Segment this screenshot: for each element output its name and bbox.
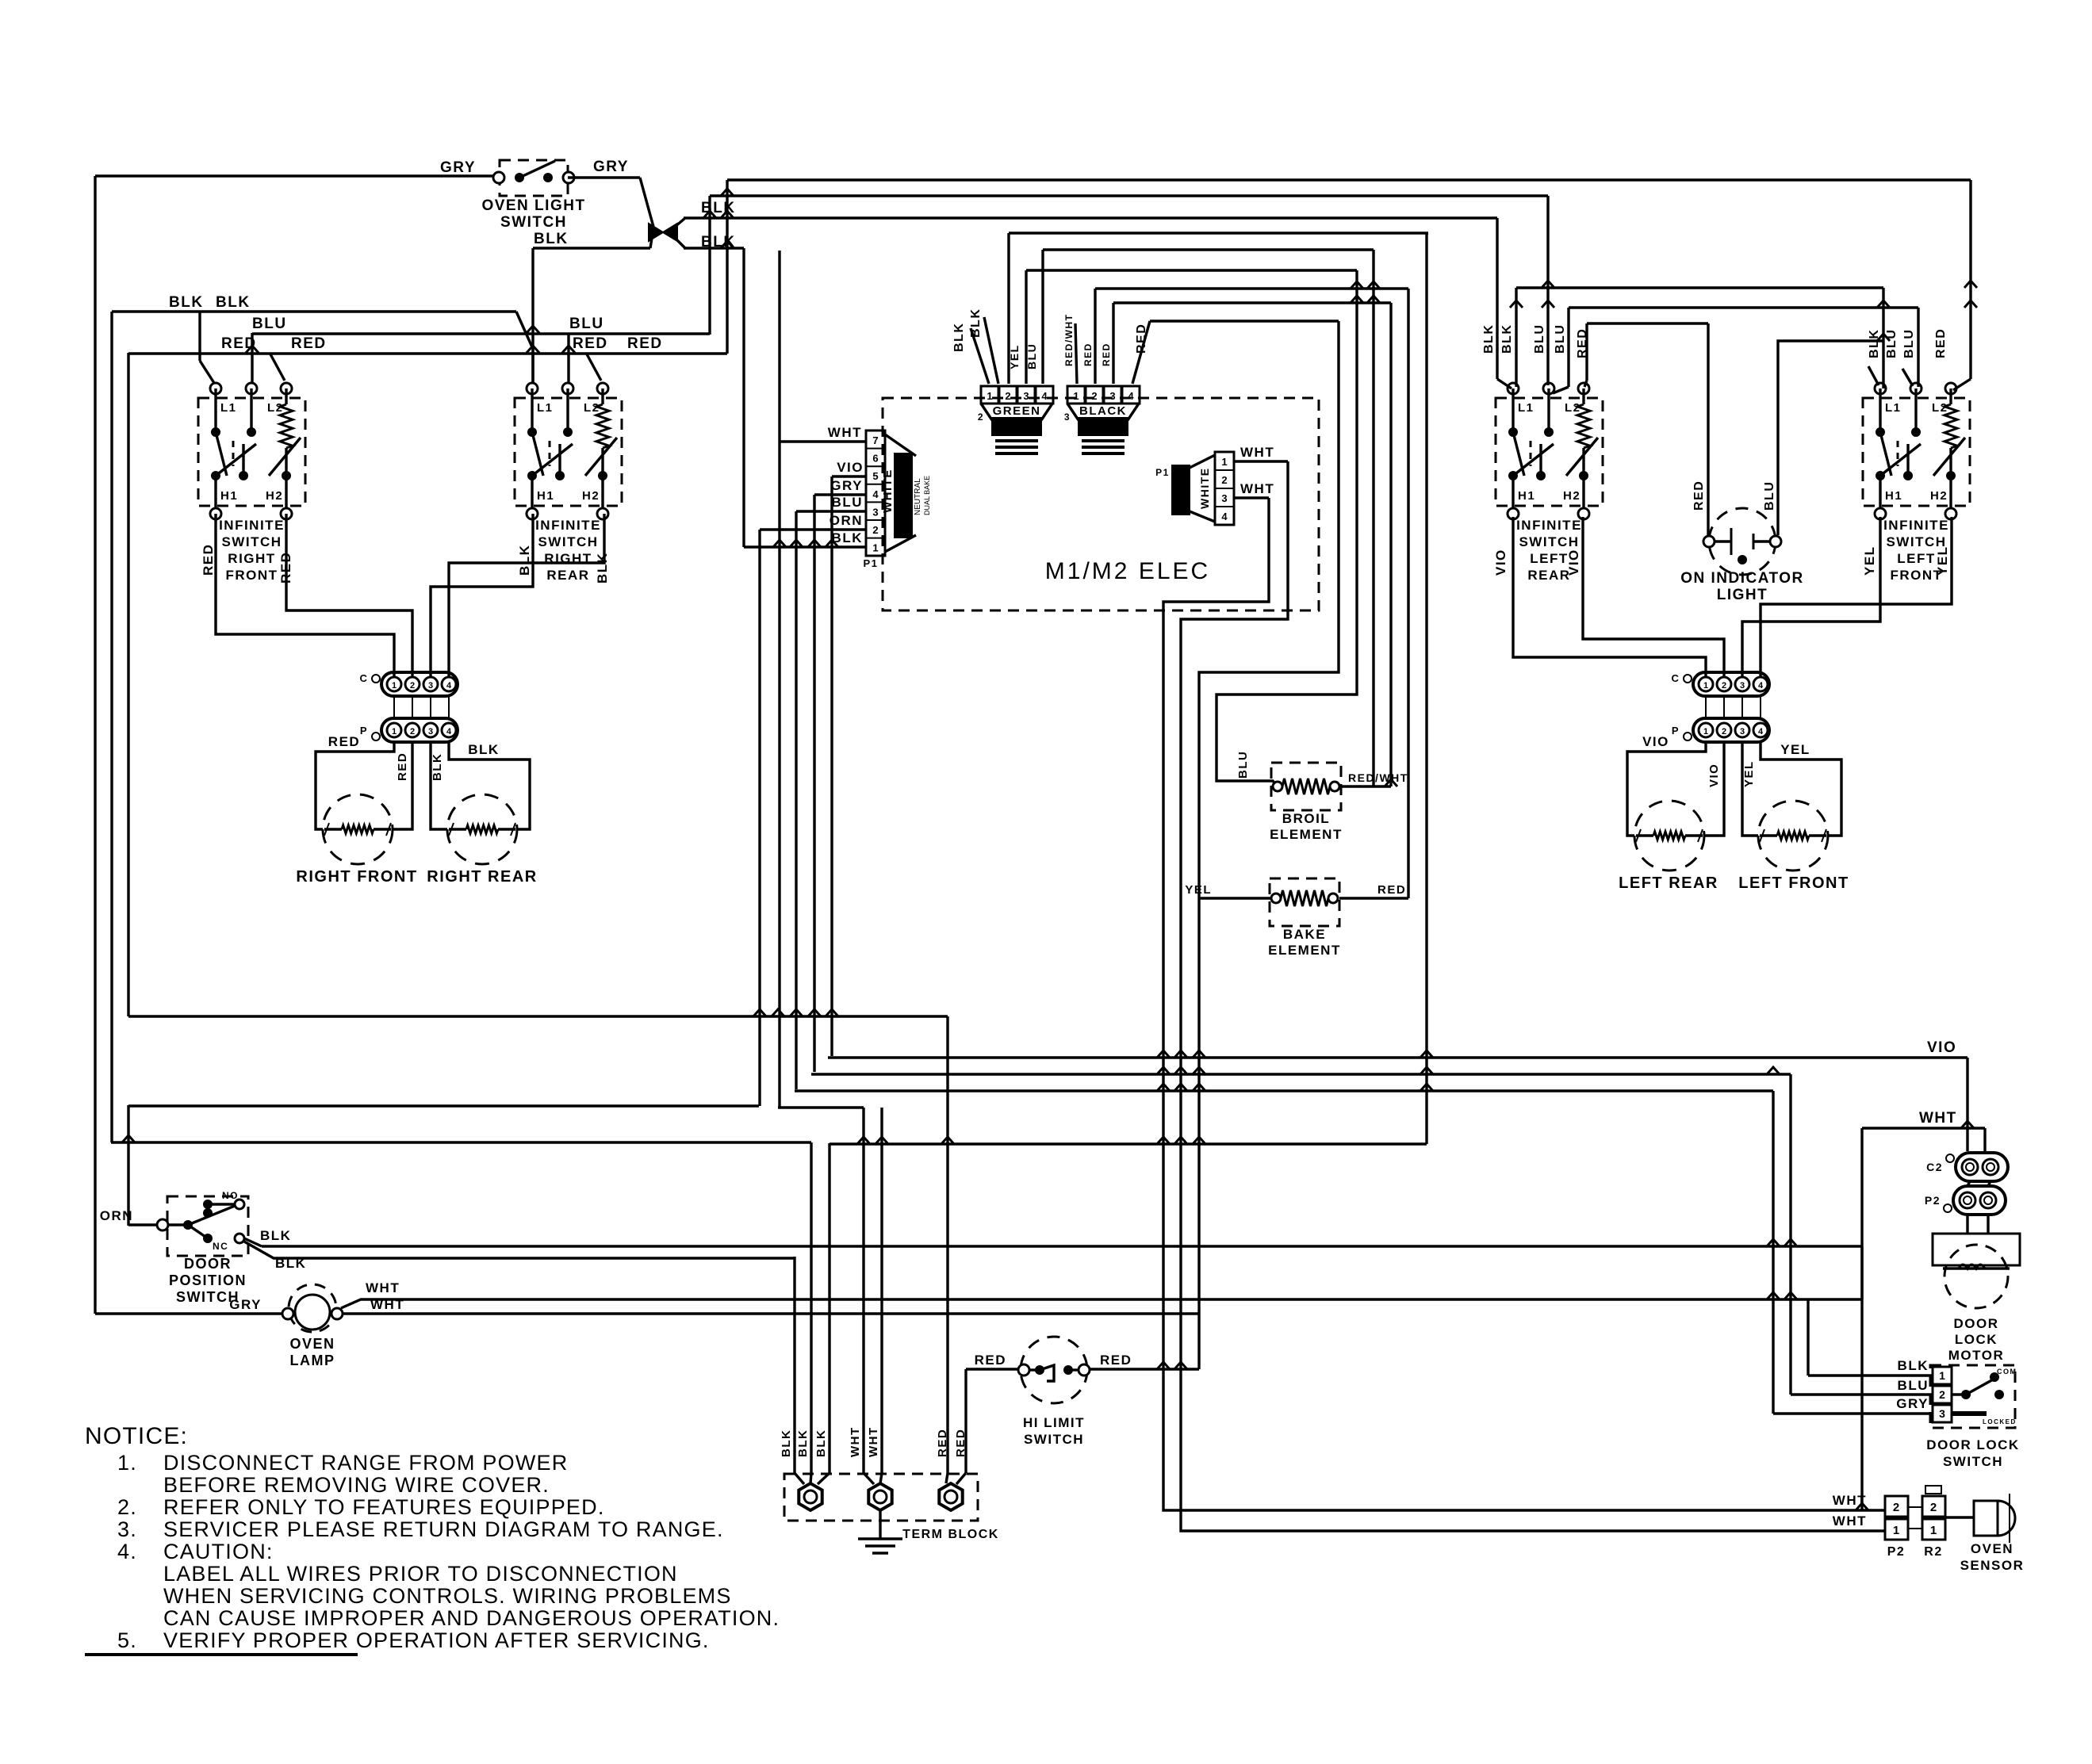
svg-text:2: 2: [1939, 1388, 1945, 1401]
svg-text:MOTOR: MOTOR: [1948, 1348, 2004, 1363]
svg-text:5: 5: [872, 470, 878, 482]
svg-text:FRONT: FRONT: [225, 568, 278, 583]
svg-text:2: 2: [1722, 727, 1726, 737]
svg-text:SENSOR: SENSOR: [1960, 1558, 2025, 1573]
svg-text:OVEN LIGHT: OVEN LIGHT: [481, 197, 585, 214]
svg-text:SWITCH: SWITCH: [1519, 534, 1579, 549]
svg-text:YEL: YEL: [1742, 760, 1756, 787]
svg-text:GRY: GRY: [593, 159, 629, 175]
svg-text:ELEMENT: ELEMENT: [1270, 827, 1343, 842]
svg-text:RED: RED: [1377, 883, 1406, 897]
svg-text:1: 1: [872, 542, 878, 554]
svg-text:BLK: BLK: [1898, 1358, 1929, 1373]
svg-text:BLK: BLK: [1482, 324, 1496, 354]
svg-text:INFINITE: INFINITE: [219, 518, 285, 533]
svg-text:M1/M2 ELEC: M1/M2 ELEC: [1045, 558, 1210, 584]
svg-text:OVEN: OVEN: [1971, 1541, 2013, 1556]
svg-text:BLK: BLK: [780, 1429, 793, 1457]
svg-text:LEFT: LEFT: [1897, 551, 1936, 566]
svg-text:2: 2: [978, 411, 984, 423]
svg-text:BLU: BLU: [1236, 751, 1250, 779]
svg-text:YEL: YEL: [1185, 883, 1212, 897]
svg-text:4: 4: [446, 727, 452, 737]
svg-text:P1: P1: [1155, 467, 1170, 478]
svg-text:GRY: GRY: [830, 478, 863, 493]
svg-text:DOOR: DOOR: [184, 1256, 232, 1272]
svg-text:RED: RED: [328, 734, 360, 749]
svg-text:LOCKED: LOCKED: [1983, 1418, 2017, 1425]
svg-text:P1: P1: [864, 557, 879, 569]
svg-text:YEL: YEL: [1780, 742, 1810, 757]
svg-text:LEFT FRONT: LEFT FRONT: [1738, 874, 1849, 892]
svg-text:BLU: BLU: [1902, 329, 1916, 358]
svg-text:SWITCH: SWITCH: [221, 534, 282, 549]
svg-text:RED: RED: [975, 1353, 1006, 1368]
svg-text:DOOR LOCK: DOOR LOCK: [1926, 1437, 2019, 1452]
svg-text:RED: RED: [291, 335, 327, 352]
svg-text:2: 2: [872, 524, 878, 536]
svg-text:BLK: BLK: [275, 1256, 306, 1271]
svg-text:SWITCH: SWITCH: [1024, 1432, 1084, 1447]
svg-text:LEFT REAR: LEFT REAR: [1619, 874, 1718, 892]
svg-text:VIO: VIO: [1566, 549, 1581, 576]
svg-text:RED: RED: [1101, 342, 1112, 366]
svg-text:RED: RED: [627, 335, 663, 352]
svg-text:3: 3: [428, 681, 433, 691]
svg-text:SWITCH: SWITCH: [538, 534, 598, 549]
svg-text:BLK: BLK: [969, 308, 983, 338]
svg-text:BLK: BLK: [952, 323, 966, 352]
svg-text:BLK: BLK: [534, 231, 569, 247]
svg-text:WHT: WHT: [1240, 445, 1274, 460]
svg-text:NEUTRAL: NEUTRAL: [914, 478, 922, 515]
svg-text:BLU: BLU: [569, 316, 604, 332]
svg-text:R2: R2: [1924, 1545, 1942, 1559]
svg-text:VIO: VIO: [1642, 734, 1669, 749]
svg-text:1: 1: [987, 390, 992, 402]
svg-text:L1: L1: [537, 401, 554, 415]
svg-text:RIGHT FRONT: RIGHT FRONT: [296, 868, 417, 886]
svg-text:2: 2: [1722, 681, 1726, 691]
svg-text:COM: COM: [1997, 1368, 2017, 1376]
svg-text:INFINITE: INFINITE: [1516, 518, 1582, 533]
svg-text:H2: H2: [266, 489, 283, 503]
svg-text:WHITE: WHITE: [1198, 467, 1211, 509]
svg-text:1: 1: [1703, 681, 1708, 691]
svg-text:RED: RED: [936, 1429, 949, 1457]
svg-text:BLK: BLK: [216, 294, 251, 311]
svg-text:VIO: VIO: [1707, 763, 1721, 787]
svg-text:WHT: WHT: [1919, 1110, 1957, 1127]
svg-text:BLU: BLU: [1898, 1378, 1929, 1393]
svg-text:1: 1: [392, 727, 397, 737]
svg-text:BEFORE REMOVING WIRE COVER.: BEFORE REMOVING WIRE COVER.: [163, 1473, 550, 1497]
svg-text:RED: RED: [1100, 1353, 1132, 1368]
svg-text:4: 4: [1128, 390, 1134, 402]
svg-text:H2: H2: [1563, 489, 1580, 503]
svg-text:P2: P2: [1925, 1194, 1941, 1207]
svg-text:4: 4: [1758, 681, 1764, 691]
svg-text:3: 3: [1740, 727, 1745, 737]
svg-text:ON INDICATOR: ON INDICATOR: [1680, 570, 1804, 587]
svg-text:SWITCH: SWITCH: [1943, 1454, 2003, 1469]
svg-text:LAMP: LAMP: [290, 1353, 335, 1368]
svg-text:VIO: VIO: [1927, 1039, 1956, 1056]
svg-text:C: C: [360, 672, 369, 684]
svg-text:BLK: BLK: [796, 1429, 810, 1457]
svg-text:RED: RED: [201, 544, 216, 576]
svg-text:GRY: GRY: [1896, 1396, 1929, 1411]
svg-text:DOOR: DOOR: [1954, 1316, 1999, 1331]
svg-text:HI LIMIT: HI LIMIT: [1023, 1415, 1085, 1430]
svg-text:WHITE: WHITE: [881, 469, 895, 513]
svg-text:WHT: WHT: [1833, 1493, 1867, 1508]
svg-text:H1: H1: [537, 489, 554, 503]
svg-text:BLK: BLK: [595, 553, 610, 584]
svg-text:4: 4: [1758, 727, 1764, 737]
svg-text:3: 3: [428, 727, 433, 737]
svg-text:BLU: BLU: [832, 495, 863, 510]
svg-text:4.: 4.: [117, 1540, 137, 1563]
svg-text:3: 3: [1064, 411, 1071, 423]
svg-text:BLK: BLK: [431, 753, 444, 781]
svg-text:LIGHT: LIGHT: [1717, 587, 1768, 603]
svg-text:BLK: BLK: [517, 545, 532, 576]
svg-text:4: 4: [1041, 390, 1048, 402]
svg-text:3: 3: [1221, 492, 1227, 504]
svg-text:WHEN SERVICING CONTROLS. WIRIN: WHEN SERVICING CONTROLS. WIRING PROBLEMS: [163, 1584, 732, 1608]
svg-text:LABEL ALL WIRES PRIOR TO DISCO: LABEL ALL WIRES PRIOR TO DISCONNECTION: [163, 1562, 678, 1586]
svg-text:VIO: VIO: [1493, 549, 1508, 576]
svg-text:2: 2: [1893, 1501, 1899, 1514]
svg-text:H1: H1: [1885, 489, 1902, 503]
svg-text:BLK: BLK: [1500, 324, 1514, 354]
svg-text:4: 4: [872, 488, 879, 500]
svg-text:DUAL BAKE: DUAL BAKE: [923, 476, 931, 515]
svg-text:6: 6: [872, 453, 878, 465]
svg-text:INFINITE: INFINITE: [1883, 518, 1949, 533]
svg-text:RED: RED: [396, 752, 409, 781]
svg-text:WHT: WHT: [370, 1297, 404, 1312]
svg-text:2: 2: [1930, 1501, 1937, 1514]
svg-text:2: 2: [1091, 390, 1097, 402]
svg-text:GRY: GRY: [229, 1297, 262, 1312]
svg-text:BLU: BLU: [1554, 324, 1567, 354]
svg-text:L1: L1: [1885, 401, 1902, 415]
svg-text:ELEMENT: ELEMENT: [1268, 943, 1341, 958]
svg-text:BLU: BLU: [252, 316, 287, 332]
svg-text:RED: RED: [1576, 328, 1589, 358]
svg-text:3.: 3.: [117, 1517, 137, 1541]
svg-text:VIO: VIO: [837, 460, 864, 475]
svg-text:WHT: WHT: [867, 1426, 880, 1457]
svg-text:NC: NC: [213, 1241, 228, 1252]
svg-text:BLK: BLK: [814, 1429, 828, 1457]
svg-text:CAN CAUSE IMPROPER AND DANGERO: CAN CAUSE IMPROPER AND DANGEROUS OPERATI…: [163, 1606, 780, 1630]
svg-text:3: 3: [1740, 681, 1745, 691]
svg-text:C: C: [1672, 672, 1680, 684]
svg-text:ORN: ORN: [100, 1208, 133, 1223]
svg-text:2.: 2.: [117, 1495, 137, 1519]
svg-text:BAKE: BAKE: [1283, 927, 1326, 942]
svg-text:3: 3: [1109, 390, 1115, 402]
svg-text:3: 3: [872, 506, 878, 518]
svg-text:WHT: WHT: [1240, 481, 1274, 496]
svg-text:RED: RED: [1692, 480, 1706, 511]
svg-text:BLU: BLU: [1025, 343, 1038, 369]
svg-text:4: 4: [446, 681, 452, 691]
svg-text:4: 4: [1221, 511, 1228, 522]
svg-text:1: 1: [392, 681, 397, 691]
svg-text:1: 1: [1930, 1524, 1937, 1537]
svg-text:L1: L1: [220, 401, 237, 415]
svg-text:L1: L1: [1518, 401, 1535, 415]
svg-text:NOTICE:: NOTICE:: [85, 1423, 188, 1449]
svg-text:BROIL: BROIL: [1282, 811, 1330, 826]
svg-text:2: 2: [410, 681, 415, 691]
svg-text:2: 2: [410, 727, 415, 737]
svg-text:GREEN: GREEN: [993, 404, 1041, 418]
svg-text:DISCONNECT RANGE FROM POWER: DISCONNECT RANGE FROM POWER: [163, 1451, 568, 1475]
svg-text:1: 1: [1221, 456, 1227, 468]
svg-text:BLK: BLK: [1868, 329, 1881, 358]
svg-text:C2: C2: [1926, 1161, 1943, 1173]
svg-text:1: 1: [1703, 727, 1708, 737]
svg-text:WHT: WHT: [849, 1426, 862, 1457]
svg-text:H1: H1: [220, 489, 238, 503]
svg-text:1: 1: [1939, 1369, 1945, 1382]
svg-text:WHT: WHT: [1833, 1513, 1867, 1529]
svg-text:WHT: WHT: [366, 1280, 400, 1295]
svg-text:POSITION: POSITION: [169, 1272, 247, 1288]
svg-text:1: 1: [1073, 390, 1079, 402]
svg-text:RED: RED: [573, 335, 608, 352]
svg-text:3: 3: [1939, 1407, 1945, 1420]
svg-text:RED/WHT: RED/WHT: [1348, 771, 1408, 784]
svg-text:H2: H2: [582, 489, 600, 503]
svg-text:RED: RED: [1934, 328, 1948, 358]
svg-text:NO: NO: [222, 1190, 239, 1201]
svg-text:1: 1: [1893, 1524, 1899, 1537]
svg-text:2: 2: [1221, 474, 1227, 486]
svg-text:WHT: WHT: [828, 425, 862, 440]
svg-text:BLK: BLK: [260, 1228, 291, 1243]
svg-text:BLU: BLU: [1763, 481, 1776, 511]
svg-text:REAR: REAR: [546, 568, 589, 583]
svg-text:RIGHT: RIGHT: [228, 551, 275, 566]
svg-text:YEL: YEL: [1862, 545, 1877, 576]
svg-text:5.: 5.: [117, 1628, 137, 1652]
svg-text:YEL: YEL: [1008, 344, 1021, 369]
svg-text:CAUTION:: CAUTION:: [163, 1540, 274, 1563]
svg-text:OVEN: OVEN: [289, 1336, 335, 1352]
svg-text:INFINITE: INFINITE: [535, 518, 601, 533]
svg-text:2: 2: [1005, 390, 1010, 402]
svg-text:GRY: GRY: [440, 159, 476, 176]
svg-text:BLU: BLU: [1885, 329, 1899, 358]
svg-text:BLK: BLK: [169, 294, 204, 311]
svg-text:RIGHT REAR: RIGHT REAR: [427, 868, 537, 886]
svg-text:REAR: REAR: [1527, 568, 1570, 583]
svg-text:RED: RED: [1135, 323, 1148, 354]
svg-text:H1: H1: [1518, 489, 1535, 503]
svg-text:BLACK: BLACK: [1079, 404, 1127, 418]
svg-text:P: P: [360, 725, 368, 737]
svg-text:P2: P2: [1887, 1545, 1906, 1559]
svg-text:SWITCH: SWITCH: [500, 214, 567, 231]
svg-text:7: 7: [872, 434, 878, 446]
svg-text:VERIFY PROPER OPERATION AFTER: VERIFY PROPER OPERATION AFTER SERVICING.: [163, 1628, 710, 1652]
svg-text:LEFT: LEFT: [1530, 551, 1569, 566]
svg-text:RED: RED: [1082, 342, 1094, 366]
svg-text:REFER ONLY TO FEATURES EQUIPPE: REFER ONLY TO FEATURES EQUIPPED.: [163, 1495, 605, 1519]
svg-text:SERVICER PLEASE RETURN DIAGRAM: SERVICER PLEASE RETURN DIAGRAM TO RANGE.: [163, 1517, 724, 1541]
svg-text:3: 3: [1023, 390, 1029, 402]
svg-text:1.: 1.: [117, 1451, 137, 1475]
svg-text:H2: H2: [1930, 489, 1948, 503]
svg-text:YEL: YEL: [1935, 545, 1950, 576]
svg-text:TERM BLOCK: TERM BLOCK: [902, 1528, 999, 1541]
svg-text:ORN: ORN: [830, 513, 863, 528]
svg-text:P: P: [1672, 725, 1680, 737]
svg-text:RED/WHT: RED/WHT: [1063, 314, 1075, 367]
svg-text:BLU: BLU: [1533, 324, 1546, 354]
svg-text:LOCK: LOCK: [1955, 1332, 1998, 1347]
svg-text:BLK: BLK: [468, 742, 499, 757]
